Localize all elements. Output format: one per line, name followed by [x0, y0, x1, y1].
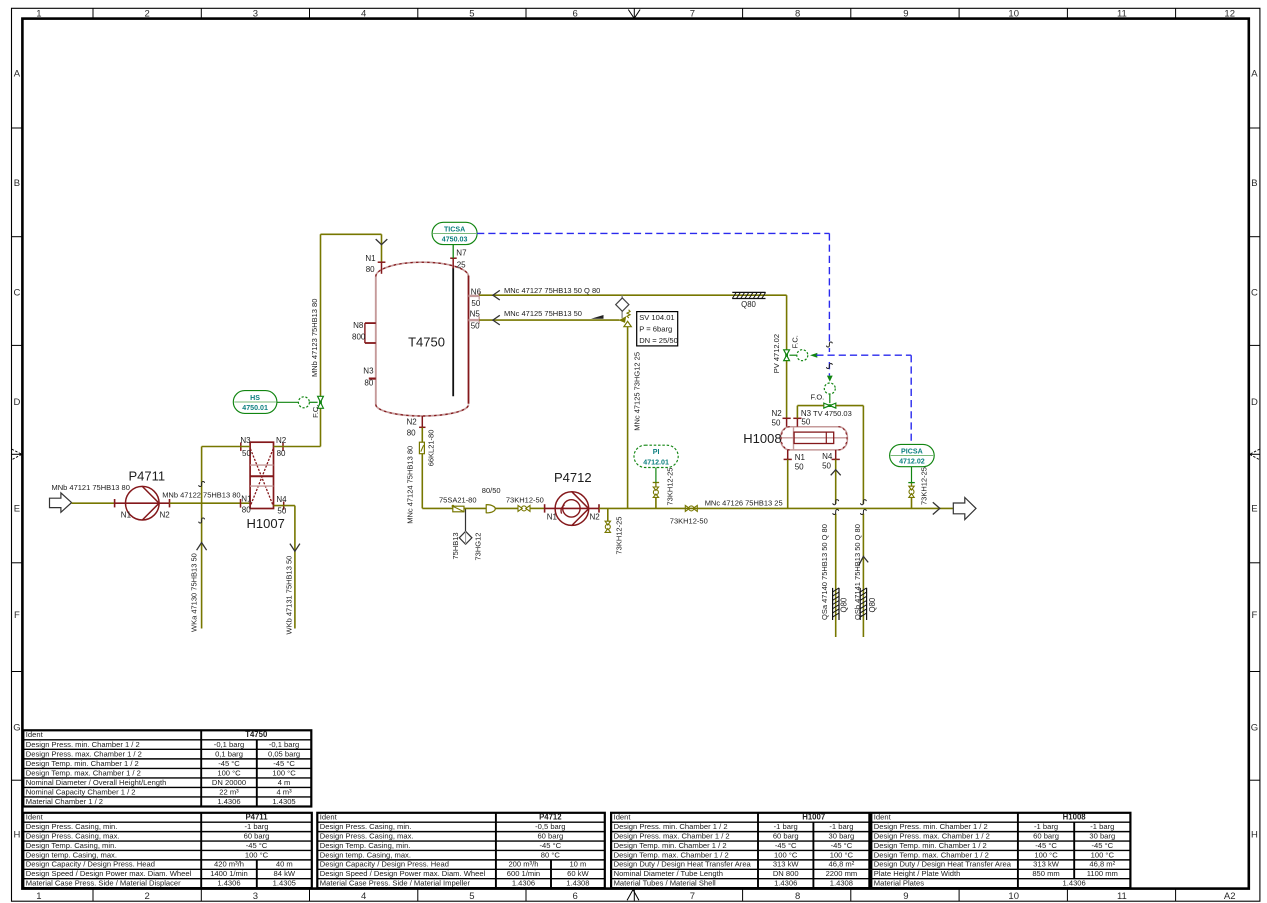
- svg-text:MNc 47124 75HB13 80: MNc 47124 75HB13 80: [406, 446, 415, 524]
- wire riser MNb 47123: [321, 234, 382, 396]
- svg-text:Material Chamber 1 / 2: Material Chamber 1 / 2: [26, 797, 103, 806]
- tank nozzle N7: [450, 248, 467, 269]
- wire SV riser MNc 47125 73HG12: [628, 327, 642, 509]
- sample point 75SA21-80: [439, 496, 477, 512]
- svg-text:66KL21-80: 66KL21-80: [427, 430, 436, 467]
- svg-text:P4711: P4711: [245, 813, 268, 822]
- svg-text:80/50: 80/50: [482, 486, 501, 495]
- tank nozzle N2: [407, 416, 426, 438]
- inline component 66KL21-80: [419, 430, 435, 467]
- spec table H1008: [871, 813, 1130, 888]
- svg-text:N5: N5: [470, 309, 481, 318]
- svg-text:Nominal Diameter / Tube Length: Nominal Diameter / Tube Length: [614, 869, 723, 878]
- svg-text:60 barg: 60 barg: [244, 831, 270, 840]
- svg-text:-45 °C: -45 °C: [246, 841, 268, 850]
- svg-text:A: A: [1251, 69, 1258, 80]
- svg-text:30 barg: 30 barg: [1089, 831, 1115, 840]
- svg-text:2200 mm: 2200 mm: [826, 869, 858, 878]
- svg-text:PICSA: PICSA: [901, 447, 923, 455]
- wire pump discharge main line: [599, 507, 953, 509]
- svg-text:3: 3: [253, 9, 258, 20]
- svg-text:313 kW: 313 kW: [1033, 860, 1060, 869]
- svg-text:Material Case Press. Side / Ma: Material Case Press. Side / Material Dis…: [26, 879, 181, 888]
- wire QSb line: [862, 406, 864, 637]
- label WKa 47130: [190, 553, 199, 632]
- svg-text:Plate Height / Plate Width: Plate Height / Plate Width: [874, 869, 961, 878]
- spec table T4750: [23, 730, 311, 806]
- svg-text:Design Duty / Design Heat Tran: Design Duty / Design Heat Transfer Area: [614, 860, 752, 869]
- tank nozzle N1: [365, 254, 385, 274]
- svg-text:Design Press. Casing, min.: Design Press. Casing, min.: [320, 822, 412, 831]
- svg-text:-1 barg: -1 barg: [1090, 822, 1114, 831]
- svg-text:N1: N1: [365, 254, 376, 263]
- flow chevron on N5 line: [493, 315, 500, 325]
- svg-text:C: C: [1251, 287, 1258, 298]
- svg-text:50: 50: [242, 449, 251, 458]
- svg-text:P4711: P4711: [128, 469, 165, 484]
- svg-text:4750.01: 4750.01: [242, 404, 268, 412]
- svg-text:100 °C: 100 °C: [1091, 850, 1115, 859]
- svg-text:800: 800: [352, 333, 366, 342]
- svg-text:100 °C: 100 °C: [830, 850, 854, 859]
- slope mark: [591, 315, 604, 319]
- svg-text:0,05 barg: 0,05 barg: [268, 749, 300, 758]
- svg-text:1.4306: 1.4306: [217, 797, 240, 806]
- svg-text:75HB13: 75HB13: [451, 532, 460, 559]
- svg-text:4712.02: 4712.02: [899, 458, 925, 466]
- svg-text:Design temp. Casing, max.: Design temp. Casing, max.: [26, 850, 117, 859]
- spec table P4711: [23, 813, 312, 888]
- tank dip pipe: [452, 268, 454, 397]
- spec table H1007: [611, 813, 869, 888]
- svg-text:50: 50: [772, 418, 781, 427]
- svg-text:H1008: H1008: [743, 431, 781, 446]
- svg-text:-1 barg: -1 barg: [1034, 822, 1058, 831]
- label QSb 47141: [853, 524, 862, 620]
- anchor Q80 QSb: [860, 588, 877, 620]
- svg-text:9: 9: [903, 9, 908, 20]
- svg-text:50: 50: [801, 418, 810, 427]
- wire to pump P4712: [530, 507, 545, 509]
- svg-text:HS: HS: [250, 394, 260, 402]
- svg-text:Design Capacity / Design Press: Design Capacity / Design Press. Head: [26, 860, 155, 869]
- wire TV valve piping: [797, 406, 863, 419]
- svg-text:Nominal Diameter / Overall Hei: Nominal Diameter / Overall Height/Length: [26, 778, 167, 787]
- svg-text:Q80: Q80: [868, 597, 877, 612]
- svg-text:73KH12-50: 73KH12-50: [506, 496, 544, 505]
- H1007 nozzle N1: [241, 494, 253, 514]
- wire MNc 47124 tank bottom line: [406, 428, 453, 524]
- svg-text:-45 °C: -45 °C: [540, 841, 562, 850]
- svg-text:11: 11: [1117, 891, 1127, 902]
- label WKb 47131: [285, 556, 294, 635]
- svg-text:50: 50: [277, 507, 286, 516]
- svg-text:Design Temp. Casing, min.: Design Temp. Casing, min.: [320, 841, 411, 850]
- svg-text:Design Duty / Design Heat Tran: Design Duty / Design Heat Transfer Area: [874, 860, 1012, 869]
- svg-text:80: 80: [242, 506, 251, 515]
- WKa line jump marks: [199, 481, 205, 523]
- svg-text:0,1 barg: 0,1 barg: [215, 749, 243, 758]
- svg-text:Ident: Ident: [874, 813, 892, 822]
- svg-text:Ident: Ident: [320, 813, 338, 822]
- H1007 nozzle N3: [240, 436, 251, 458]
- svg-text:4750.03: 4750.03: [442, 235, 468, 243]
- wire MNc 47127 return line: [479, 286, 786, 295]
- svg-text:Design Speed / Design Power ma: Design Speed / Design Power max. Diam. W…: [320, 869, 486, 878]
- svg-text:9: 9: [903, 891, 908, 902]
- svg-text:Design Capacity / Design Press: Design Capacity / Design Press. Head: [320, 860, 449, 869]
- PICSA branch: [908, 467, 928, 508]
- svg-text:C: C: [13, 287, 20, 298]
- QSb flow arrow: [859, 556, 869, 565]
- svg-text:6: 6: [573, 9, 578, 20]
- svg-text:Q80: Q80: [840, 597, 849, 612]
- instrument HS 4750.01: [233, 391, 298, 414]
- heat exchanger H1008: [743, 427, 847, 450]
- svg-text:6: 6: [573, 891, 578, 902]
- svg-text:313 kW: 313 kW: [773, 860, 800, 869]
- svg-text:DN 20000: DN 20000: [212, 778, 246, 787]
- QSa jump marks: [833, 500, 839, 515]
- svg-text:4712.01: 4712.01: [643, 458, 669, 466]
- pipe anchor Q80: [732, 292, 765, 309]
- svg-text:60 barg: 60 barg: [537, 831, 563, 840]
- instrument PICSA 4712.02: [890, 444, 935, 482]
- svg-text:T4750: T4750: [408, 335, 445, 350]
- svg-text:2: 2: [145, 891, 150, 902]
- svg-text:5: 5: [469, 891, 474, 902]
- wire MNb 47121 suction line: [52, 483, 130, 503]
- wire to valve: [495, 507, 518, 509]
- svg-text:G: G: [13, 722, 20, 733]
- svg-text:F.C.: F.C.: [791, 335, 800, 348]
- wire WKa supply to N3: [202, 446, 251, 448]
- svg-text:P4712: P4712: [539, 813, 562, 822]
- svg-text:73KH12-25: 73KH12-25: [920, 467, 929, 505]
- svg-text:100 °C: 100 °C: [272, 768, 296, 777]
- svg-text:Design Speed / Design Power ma: Design Speed / Design Power max. Diam. W…: [26, 869, 192, 878]
- H1008 nozzle N2: [772, 409, 791, 427]
- heat exchanger H1007: [247, 442, 285, 531]
- svg-text:E: E: [14, 504, 20, 515]
- svg-text:Ident: Ident: [614, 813, 632, 822]
- svg-text:Design Press. Casing, max.: Design Press. Casing, max.: [320, 831, 414, 840]
- svg-text:N8: N8: [353, 321, 364, 330]
- svg-text:Design Press. max. Chamber 1 /: Design Press. max. Chamber 1 / 2: [874, 831, 990, 840]
- svg-text:80 °C: 80 °C: [541, 850, 561, 859]
- svg-text:MNc 47125 73HG12 25: MNc 47125 73HG12 25: [633, 352, 642, 431]
- signal PICSA to PV: [816, 355, 911, 444]
- flow chevron on N6 line: [493, 290, 500, 300]
- wire MNc 47125 to safety valve: [479, 309, 619, 320]
- svg-text:100 °C: 100 °C: [774, 850, 798, 859]
- svg-text:-1 barg: -1 barg: [829, 822, 853, 831]
- svg-text:B: B: [1251, 178, 1257, 189]
- svg-text:10: 10: [1008, 891, 1019, 902]
- svg-text:5: 5: [469, 9, 474, 20]
- tank nozzle N5: [469, 309, 481, 330]
- svg-text:Design Temp. min. Chamber 1 /: Design Temp. min. Chamber 1 / 2: [874, 841, 987, 850]
- svg-text:1.4306: 1.4306: [217, 879, 240, 888]
- svg-text:8: 8: [795, 891, 800, 902]
- svg-text:2: 2: [145, 9, 150, 20]
- svg-text:DN = 25/50: DN = 25/50: [639, 336, 678, 345]
- svg-text:N3: N3: [363, 366, 374, 375]
- svg-text:Ident: Ident: [26, 813, 44, 822]
- svg-text:N4: N4: [822, 452, 833, 461]
- WKa flow arrow up: [197, 543, 207, 551]
- svg-text:1100 mm: 1100 mm: [1087, 869, 1118, 878]
- off-page outlet arrow: [953, 498, 976, 520]
- svg-text:73KH12-25: 73KH12-25: [615, 517, 624, 555]
- spec break diamond 75HB13/73HG12: [451, 509, 483, 561]
- svg-text:-45 °C: -45 °C: [1035, 841, 1057, 850]
- svg-text:N1: N1: [241, 494, 252, 503]
- svg-text:30 barg: 30 barg: [829, 831, 855, 840]
- svg-text:MNb 47123 75HB13 80: MNb 47123 75HB13 80: [310, 299, 319, 377]
- svg-text:1.4306: 1.4306: [512, 879, 535, 888]
- svg-text:D: D: [13, 397, 20, 408]
- valve HS F.C.: [298, 396, 323, 418]
- svg-text:8: 8: [795, 9, 800, 20]
- svg-text:H1007: H1007: [247, 516, 285, 531]
- label MNb 47123: [310, 299, 319, 377]
- svg-text:-45 °C: -45 °C: [775, 841, 797, 850]
- svg-text:QSa 47140 75HB13 50 Q 80: QSa 47140 75HB13 50 Q 80: [820, 524, 829, 620]
- svg-text:40 m: 40 m: [276, 860, 293, 869]
- svg-text:Design Temp. max. Chamber 1 /: Design Temp. max. Chamber 1 / 2: [614, 850, 729, 859]
- drain branch 73KH12-25: [605, 508, 623, 554]
- flow chevron outlet: [933, 502, 940, 514]
- svg-text:-1 barg: -1 barg: [774, 822, 798, 831]
- svg-text:1: 1: [36, 891, 41, 902]
- PI branch: [653, 468, 675, 509]
- svg-text:Design Temp. Casing, min.: Design Temp. Casing, min.: [26, 841, 117, 850]
- svg-text:850 mm: 850 mm: [1032, 869, 1059, 878]
- svg-text:N2: N2: [772, 409, 783, 418]
- svg-text:Design temp. Casing, max.: Design temp. Casing, max.: [320, 850, 411, 859]
- svg-text:80: 80: [277, 449, 286, 458]
- svg-text:PI: PI: [653, 448, 660, 456]
- svg-text:PV 4712.02: PV 4712.02: [772, 334, 781, 373]
- svg-text:P = 6barg: P = 6barg: [639, 325, 672, 334]
- svg-text:60 barg: 60 barg: [1033, 831, 1059, 840]
- valve 73KH12-50: [506, 496, 544, 512]
- pump P4712: [545, 470, 601, 525]
- svg-text:46,8 m²: 46,8 m²: [1089, 860, 1115, 869]
- svg-text:N1: N1: [121, 511, 132, 520]
- svg-text:Design Temp. min. Chamber 1 /: Design Temp. min. Chamber 1 / 2: [26, 759, 139, 768]
- spec table P4712: [317, 813, 605, 888]
- svg-text:1.4308: 1.4308: [566, 879, 589, 888]
- svg-text:4: 4: [361, 9, 366, 20]
- svg-text:12: 12: [1224, 9, 1235, 20]
- svg-text:Design Press. min. Chamber 1 /: Design Press. min. Chamber 1 / 2: [614, 822, 728, 831]
- svg-text:-0,1 barg: -0,1 barg: [269, 740, 299, 749]
- svg-text:25: 25: [457, 260, 466, 269]
- svg-text:600 1/min: 600 1/min: [507, 869, 540, 878]
- svg-text:N1: N1: [547, 512, 558, 521]
- svg-text:100 °C: 100 °C: [217, 768, 241, 777]
- svg-text:73KH12-25: 73KH12-25: [666, 468, 675, 506]
- svg-text:1.4306: 1.4306: [1063, 879, 1086, 888]
- svg-text:-0,1 barg: -0,1 barg: [214, 740, 244, 749]
- svg-text:SV 104.01: SV 104.01: [639, 313, 674, 322]
- svg-text:A: A: [14, 69, 21, 80]
- svg-text:H1007: H1007: [802, 813, 825, 822]
- svg-text:-45 °C: -45 °C: [1091, 841, 1113, 850]
- svg-text:A2: A2: [1224, 891, 1236, 902]
- svg-text:G: G: [1251, 722, 1258, 733]
- svg-text:MNc 47125 75HB13 50: MNc 47125 75HB13 50: [504, 309, 582, 318]
- svg-text:11: 11: [1117, 9, 1127, 20]
- H1008 nozzle N1: [784, 450, 806, 471]
- pump P4711: [115, 469, 171, 521]
- svg-text:QSb 47141 75HB13 50 Q 80: QSb 47141 75HB13 50 Q 80: [853, 524, 862, 620]
- svg-text:Material Tubes / Material Shel: Material Tubes / Material Shell: [614, 879, 716, 888]
- H1008 nozzle N4: [822, 450, 840, 471]
- svg-text:TICSA: TICSA: [444, 225, 465, 233]
- valve TV 4750.03 F.O.: [811, 376, 852, 419]
- svg-text:50: 50: [795, 462, 804, 471]
- SV label box: [637, 312, 678, 346]
- svg-text:60 kW: 60 kW: [567, 869, 589, 878]
- svg-text:80: 80: [407, 429, 416, 438]
- tank nozzle N6: [469, 287, 482, 308]
- svg-text:50: 50: [471, 321, 480, 330]
- svg-text:60 barg: 60 barg: [773, 831, 799, 840]
- svg-text:T4750: T4750: [245, 730, 268, 739]
- svg-text:Design Press. max. Chamber 1 /: Design Press. max. Chamber 1 / 2: [26, 749, 142, 758]
- label QSa 47140: [820, 524, 829, 620]
- tank nozzle N8 manway: [352, 321, 376, 343]
- H1007 nozzle N2: [276, 436, 287, 458]
- svg-text:3: 3: [253, 891, 258, 902]
- svg-text:Nominal Capacity Chamber 1 / 2: Nominal Capacity Chamber 1 / 2: [26, 787, 136, 796]
- H1008 nozzle N3: [793, 409, 811, 427]
- svg-text:-45 °C: -45 °C: [831, 841, 853, 850]
- svg-text:-45 °C: -45 °C: [218, 759, 240, 768]
- svg-text:F: F: [14, 610, 20, 621]
- svg-text:7: 7: [690, 891, 695, 902]
- svg-text:4: 4: [361, 891, 366, 902]
- svg-text:1.4308: 1.4308: [830, 879, 853, 888]
- svg-text:-0,5 barg: -0,5 barg: [535, 822, 565, 831]
- wire WKa line: [201, 447, 203, 629]
- svg-text:100 °C: 100 °C: [245, 850, 269, 859]
- svg-text:N2: N2: [276, 436, 287, 445]
- svg-text:WKa 47130 75HB13 50: WKa 47130 75HB13 50: [190, 553, 199, 632]
- tank nozzle N3: [363, 366, 376, 387]
- svg-text:Design Press. min. Chamber 1 /: Design Press. min. Chamber 1 / 2: [26, 740, 140, 749]
- svg-text:N4: N4: [276, 495, 287, 504]
- svg-text:D: D: [1251, 397, 1258, 408]
- svg-text:H: H: [13, 830, 20, 841]
- svg-text:N3: N3: [240, 436, 251, 445]
- svg-text:Material Case Press. Side / Ma: Material Case Press. Side / Material Imp…: [320, 879, 471, 888]
- svg-text:Q80: Q80: [741, 300, 756, 309]
- H1007 nozzle N4: [276, 495, 287, 516]
- svg-text:4 m: 4 m: [278, 778, 291, 787]
- wire H1008 N1 down: [787, 459, 789, 508]
- QSa flow arrow: [831, 470, 841, 476]
- svg-text:100 °C: 100 °C: [1034, 850, 1058, 859]
- svg-text:N2: N2: [590, 512, 601, 521]
- instrument TICSA 4750.03: [432, 222, 477, 258]
- svg-text:22 m³: 22 m³: [219, 787, 239, 796]
- instrument PI 4712.01: [634, 445, 678, 482]
- safety valve SV 104.01: [619, 310, 632, 327]
- svg-text:50: 50: [822, 462, 831, 471]
- svg-text:H1008: H1008: [1063, 813, 1087, 822]
- tank T4750: [376, 262, 469, 416]
- svg-text:1: 1: [36, 9, 41, 20]
- svg-text:50: 50: [471, 299, 480, 308]
- svg-text:Design Temp. max. Chamber 1 /: Design Temp. max. Chamber 1 / 2: [874, 850, 989, 859]
- svg-text:420 m³/h: 420 m³/h: [214, 860, 244, 869]
- svg-text:73KH12-50: 73KH12-50: [670, 517, 708, 526]
- svg-text:MNc 47127 75HB13 50 Q 80: MNc 47127 75HB13 50 Q 80: [504, 286, 600, 295]
- svg-text:N3: N3: [801, 409, 812, 418]
- QSb jump marks: [861, 500, 867, 515]
- svg-text:N2: N2: [407, 417, 418, 426]
- valve PV 4712.02 F.C.: [772, 334, 817, 373]
- flow arrow into tank N1: [376, 239, 388, 245]
- wire to reducer: [464, 507, 486, 509]
- svg-text:84 kW: 84 kW: [274, 869, 296, 878]
- svg-text:7: 7: [690, 9, 695, 20]
- off-page inlet arrow: [50, 493, 72, 512]
- valve 73KH12-50 (2): [670, 505, 708, 525]
- svg-text:1.4305: 1.4305: [273, 879, 296, 888]
- WKb flow arrow down: [290, 544, 300, 552]
- svg-text:F.C.: F.C.: [311, 405, 320, 418]
- svg-text:MNc 47126 75HB13 25: MNc 47126 75HB13 25: [705, 499, 783, 508]
- svg-text:F.O.: F.O.: [811, 393, 825, 402]
- wire PV valve to H1008 N2: [786, 361, 788, 419]
- wire QSa line: [835, 459, 837, 637]
- anchor Q80 QSa: [833, 588, 849, 620]
- label MNc 47126: [705, 499, 783, 508]
- wire riser to PV valve: [786, 295, 788, 350]
- svg-text:DN 800: DN 800: [773, 869, 799, 878]
- svg-text:1400 1/min: 1400 1/min: [210, 869, 248, 878]
- svg-text:75SA21-80: 75SA21-80: [439, 496, 477, 505]
- svg-text:P4712: P4712: [554, 470, 592, 485]
- svg-text:80: 80: [364, 378, 373, 387]
- svg-text:73HG12: 73HG12: [474, 533, 483, 561]
- svg-text:F: F: [1251, 610, 1257, 621]
- svg-text:4 m³: 4 m³: [276, 787, 292, 796]
- svg-text:Ident: Ident: [26, 730, 44, 739]
- svg-text:WKb 47131 75HB13 50: WKb 47131 75HB13 50: [285, 556, 294, 635]
- svg-text:10: 10: [1008, 9, 1019, 20]
- svg-text:N1: N1: [795, 453, 806, 462]
- svg-text:10 m: 10 m: [569, 860, 586, 869]
- svg-text:-45 °C: -45 °C: [273, 759, 295, 768]
- spec break diamond on SV outlet: [616, 295, 629, 318]
- svg-text:Design Temp. min. Chamber 1 /: Design Temp. min. Chamber 1 / 2: [614, 841, 727, 850]
- svg-text:1.4305: 1.4305: [272, 797, 295, 806]
- svg-text:200 m³/h: 200 m³/h: [508, 860, 538, 869]
- svg-text:Design Temp. max. Chamber 1 /: Design Temp. max. Chamber 1 / 2: [26, 768, 141, 777]
- svg-text:46,8 m²: 46,8 m²: [829, 860, 855, 869]
- wire H1007 N4 to WKb: [274, 506, 295, 629]
- svg-text:80: 80: [366, 265, 375, 274]
- svg-text:Design Press. Casing, max.: Design Press. Casing, max.: [26, 831, 120, 840]
- svg-text:TV 4750.03: TV 4750.03: [813, 409, 852, 418]
- svg-text:Design Press. Casing, min.: Design Press. Casing, min.: [26, 822, 118, 831]
